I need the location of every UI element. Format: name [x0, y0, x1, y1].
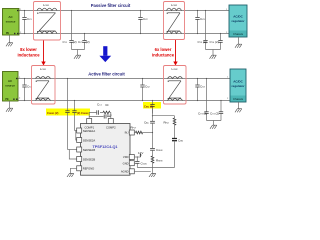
pin SENSE1B [77, 147, 96, 152]
pin SENSE2A [77, 138, 96, 143]
capacitor CINJ on line B [172, 139, 183, 168]
wire sense A stub to SENSE2B pin [69, 150, 77, 160]
yellow highlight CINJ label [143, 102, 161, 109]
wire CY1/CY2 join [72, 50, 85, 55]
svg-text:Active filter circuit: Active filter circuit [88, 72, 125, 77]
wire CY3/CY4 join (active) [207, 121, 222, 125]
wire AGND pin to bottom net [134, 171, 153, 172]
pin COMP2 [106, 119, 116, 130]
svg-text:regulator: regulator [231, 19, 245, 23]
AC/DC regulator box (passive) [226, 5, 247, 37]
svg-text:12V: 12V [138, 151, 143, 155]
capacitor CX3 (active) [195, 78, 205, 101]
yellow highlight CSEN labels [46, 109, 90, 116]
svg-text:inductance: inductance [17, 53, 40, 58]
svg-text:SENSE2B: SENSE2B [83, 157, 96, 161]
wire PE stub (active) [9, 101, 11, 107]
svg-text:TPSF12C4-Q1: TPSF12C4-Q1 [92, 145, 117, 149]
ground (CY3/CY4 active) [210, 124, 217, 129]
svg-text:inductance: inductance [152, 53, 175, 58]
capacitor CX2 (passive) [138, 10, 148, 34]
sense line B from neutral bus [72, 100, 76, 131]
AC/DC regulator box (active) [227, 69, 246, 102]
svg-text:CY3 (2): CY3 (2) [198, 112, 207, 116]
12V supply arrow [134, 151, 143, 158]
wire injection node to line B [153, 115, 175, 117]
ground (CY3/CY4) [210, 54, 217, 59]
svg-text:SENSE2A: SENSE2A [83, 138, 96, 142]
wire bottom bus (active, neutral) [18, 100, 230, 102]
injection line A with capacitor CAC [144, 109, 155, 149]
wire top bus (active, line) [18, 78, 230, 80]
svg-text:AGND: AGND [121, 170, 129, 174]
injection line cap (in yellow) [150, 100, 154, 114]
ground (analog) [149, 172, 156, 177]
svg-text:8x lower: 8x lower [20, 47, 37, 52]
wire PE stub (passive) [9, 35, 11, 42]
capacitor CY1 (passive) [69, 10, 73, 50]
ground (AC/DC regulator active) [235, 108, 242, 113]
wire bottom bus (passive, neutral) [19, 33, 229, 35]
choke LCM2 red box (passive) [164, 2, 185, 40]
svg-text:CY3 (2): CY3 (2) [198, 40, 207, 44]
wire chassis stub (active) [238, 102, 240, 108]
svg-text:source: source [6, 19, 16, 23]
capacitor CX2 (active) [140, 78, 150, 101]
svg-text:PE: PE [6, 32, 10, 35]
capacitor CY2 (passive) [82, 33, 86, 50]
callout arrow (left red) [41, 41, 45, 66]
pin COMP1 [85, 119, 95, 130]
pin SENSE1A [77, 128, 96, 133]
capacitor CX1 (passive) [22, 10, 32, 34]
svg-text:(2): (2) [86, 40, 90, 44]
wire sense A to SENSE1B pin [68, 149, 78, 151]
svg-text:(2): (2) [73, 40, 77, 44]
resistor RSEN on line A [151, 156, 163, 171]
capacitor CY4 (active) [219, 100, 223, 121]
svg-text:VDD: VDD [123, 155, 129, 159]
choke LCM1 red box (passive) [34, 2, 61, 41]
svg-text:CY4 (2): CY4 (2) [210, 40, 219, 44]
svg-text:COMP1: COMP1 [85, 125, 95, 129]
ground (REFGND) [67, 172, 74, 177]
pin AGND [121, 169, 134, 174]
resistor RFLT [131, 126, 153, 134]
wire sense B stub to SENSE2A pin [76, 131, 77, 141]
pin VDD [123, 155, 134, 160]
svg-text:regulator: regulator [231, 84, 245, 88]
pin REFGND [77, 166, 95, 171]
choke LCM2 red box (active) [164, 66, 187, 105]
svg-text:Chassis: Chassis [233, 97, 244, 101]
svg-text:Passive filter circuit: Passive filter circuit [91, 3, 131, 8]
wire top bus (passive, line) [19, 10, 229, 12]
wire CY3/CY4 join [206, 50, 221, 55]
pin GND [123, 161, 135, 166]
svg-text:COMP2: COMP2 [106, 125, 116, 129]
svg-text:CY4 (2): CY4 (2) [210, 112, 219, 116]
compensation network COMP1/COMP2 [89, 102, 112, 119]
svg-text:Chassis: Chassis [233, 32, 244, 36]
ground (CY1/CY2) [74, 54, 81, 59]
AC source box (active) [3, 72, 22, 102]
AC source box (passive) [3, 9, 23, 36]
common-mode choke LCM2 windings (active) [168, 77, 183, 101]
svg-text:CINJ (2): CINJ (2) [144, 104, 153, 108]
common-mode choke LCM2 windings (passive) [167, 8, 182, 33]
capacitor CVDD [135, 157, 147, 168]
common-mode choke LCM1 windings (passive) [37, 8, 57, 33]
wire sense B to SENSE1A pin [75, 130, 78, 132]
callout text 8x lower inductance [17, 47, 40, 58]
svg-text:source: source [5, 84, 15, 88]
wire REFGND stub [71, 168, 78, 172]
wire GND pin to bottom net [134, 162, 135, 164]
ground (AC/DC regulator passive) [235, 43, 242, 48]
common-mode choke LCM1 windings (active) [36, 77, 51, 101]
capacitor CSEN on line A [150, 148, 163, 156]
svg-text:INJ: INJ [125, 131, 130, 135]
capacitor CY3 (passive) [203, 10, 207, 50]
callout arrow (right red) [173, 40, 177, 66]
wire chassis stub (passive) [238, 37, 240, 43]
pin SENSE2B [77, 157, 96, 162]
wire bottom net [137, 167, 174, 169]
choke LCM1 red box (active) [32, 66, 56, 105]
capacitor CY3 (active) [204, 78, 208, 121]
svg-text:PE: PE [5, 98, 9, 101]
svg-text:SENSE1A: SENSE1A [83, 129, 96, 133]
resistor RINJ on line B [164, 116, 176, 138]
callout text 6x lower inductance [152, 47, 175, 58]
capacitor CY4 (passive) [218, 33, 222, 50]
big blue transition arrow [99, 46, 111, 62]
IC U1 TPSF12C4-Q1 body [81, 124, 131, 176]
svg-text:GND: GND [123, 161, 129, 165]
svg-text:SENSE1B: SENSE1B [83, 148, 96, 152]
capacitor CX1 (active) [22, 78, 32, 101]
svg-text:6x lower: 6x lower [155, 47, 172, 52]
ground (AC source passive) [6, 42, 13, 47]
pin INJ [125, 130, 135, 135]
capacitor CX3 (passive) [195, 10, 205, 34]
svg-text:REFGND: REFGND [83, 167, 94, 171]
sense line A from line bus [65, 78, 69, 150]
ground (AC source active) [6, 107, 13, 112]
